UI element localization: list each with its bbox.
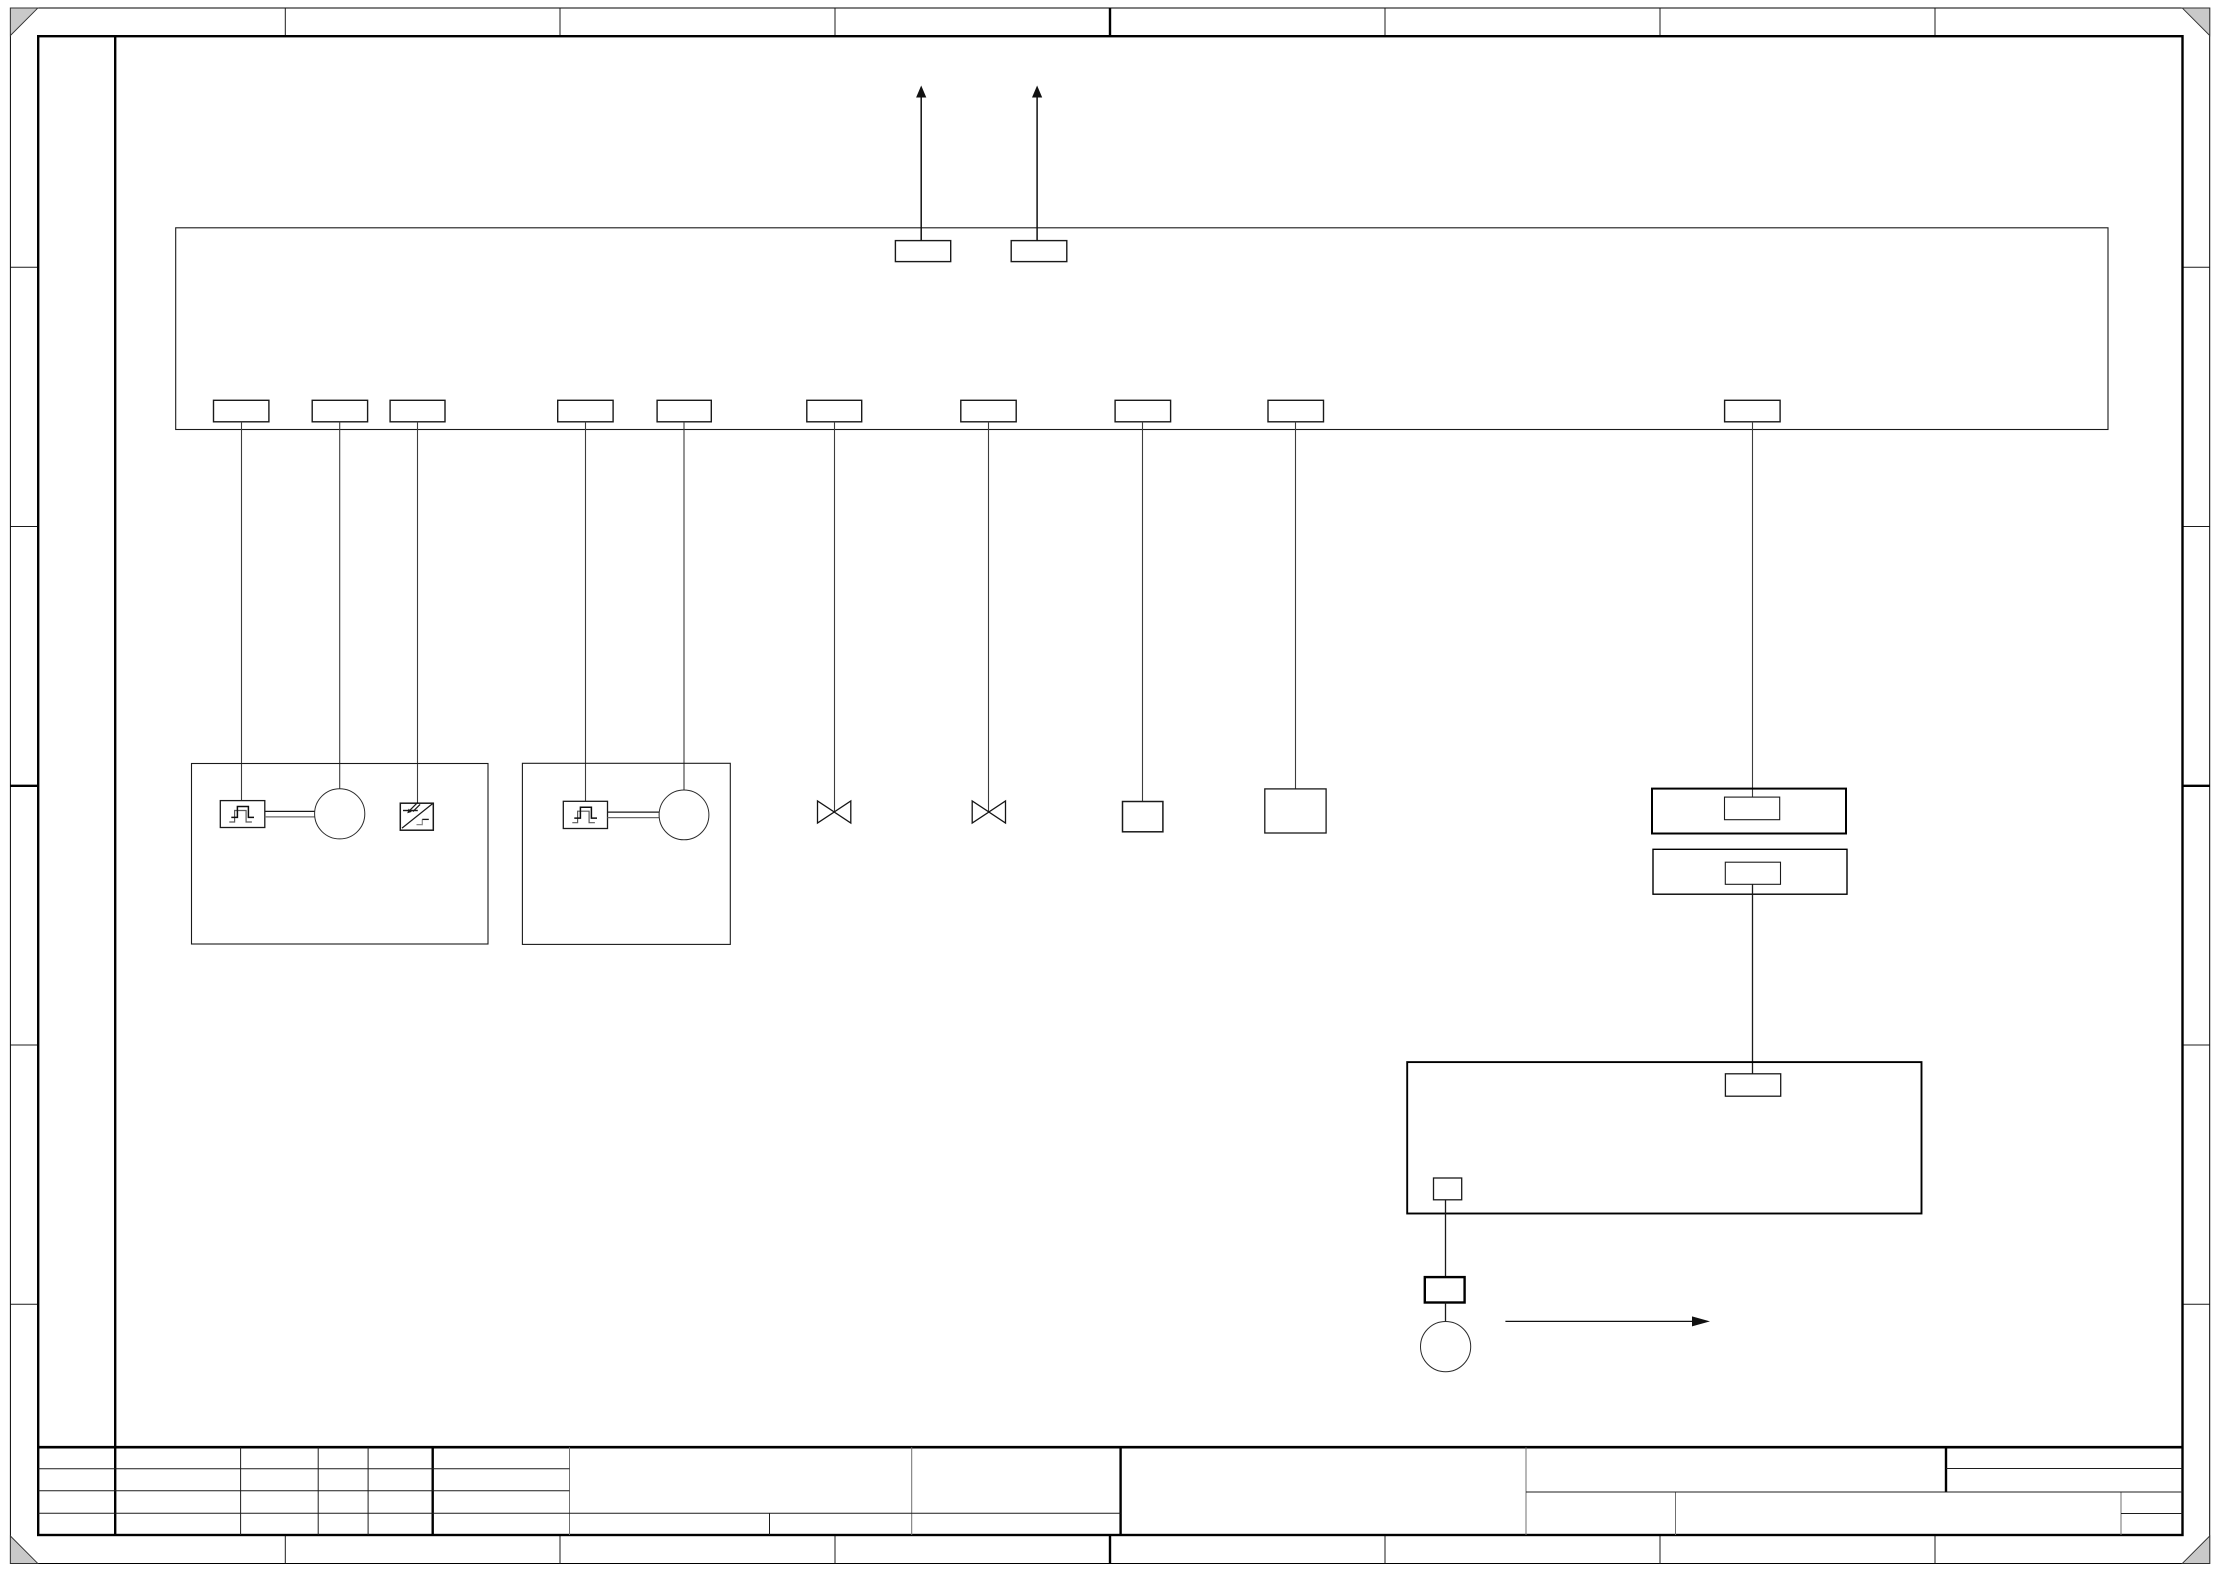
controller box — [1407, 1062, 1921, 1213]
wire module to controller — [1752, 884, 1754, 1074]
title block thin vertical x368 — [367, 1447, 369, 1535]
wire coupler to device circle — [1445, 1303, 1447, 1323]
actuator box T9 — [1265, 789, 1326, 833]
zone ticks right band — [2183, 267, 2210, 1304]
shaft double line 2 — [608, 812, 660, 818]
drive group box 1 — [192, 764, 489, 945]
bus terminal T5 — [657, 400, 711, 422]
left column divider — [114, 36, 116, 1535]
title block row line y1490 left — [38, 1490, 569, 1492]
title block grey vertical x569 — [569, 1447, 571, 1535]
title block row line y1513 — [38, 1512, 1120, 1514]
title block grey vertical x911 — [911, 1447, 913, 1535]
motor circle 2 — [659, 790, 709, 840]
bus terminal T7 — [961, 400, 1016, 422]
pulse converter 2 — [563, 801, 607, 828]
wire T1 to pulse box 1 — [241, 422, 243, 801]
title block short vertical x769 — [769, 1513, 771, 1535]
zone ticks left band — [10, 267, 38, 1304]
actuator box T8 — [1123, 802, 1163, 832]
wire T2 to motor 1 — [339, 422, 341, 789]
wire T4 to pulse box 2 — [585, 422, 587, 802]
zone ticks top band — [285, 8, 1935, 36]
title block thick vertical x432 — [432, 1447, 434, 1535]
motor circle 1 — [315, 789, 365, 839]
zone center tick top — [1109, 8, 1111, 36]
bus terminal T4 — [558, 400, 613, 422]
zone center tick bottom — [1109, 1535, 1111, 1564]
corner trim triangle bottom-left — [10, 1536, 38, 1564]
flow arrow right — [1505, 1316, 1710, 1326]
title block row line y1513 small right — [2121, 1513, 2183, 1515]
valve 2 — [972, 801, 1005, 823]
wire T9 to box — [1295, 422, 1297, 789]
title block row line y1492 right — [1526, 1491, 2183, 1493]
title block thin vertical x318 — [317, 1447, 319, 1535]
coupler rect — [1425, 1277, 1465, 1302]
encoder converter box — [400, 802, 433, 830]
pulse converter 1 — [220, 801, 264, 828]
bus output terminal A — [895, 241, 950, 262]
title block row line y1468 right — [1946, 1468, 2183, 1470]
bus terminal T2 — [312, 400, 367, 422]
interface module lower — [1653, 849, 1847, 894]
bus terminal T9 — [1268, 400, 1324, 422]
up arrow A — [916, 86, 926, 241]
wire T7 to valve 2 — [988, 422, 990, 812]
wire T8 to box — [1142, 422, 1144, 802]
title block thin vertical x240 — [240, 1447, 242, 1535]
wire T5 to motor 2 — [683, 422, 685, 790]
bus terminal T3 — [390, 400, 445, 422]
title block top line — [38, 1446, 2182, 1449]
interface module upper — [1652, 789, 1846, 834]
PLC bus box — [176, 228, 2108, 430]
bus terminal T10 — [1725, 400, 1781, 422]
title block short grey vertical x2121 — [2120, 1492, 2122, 1535]
corner trim triangle top-right — [2182, 8, 2210, 36]
zone center tick left — [10, 785, 38, 787]
corner trim triangle bottom-right — [2182, 1536, 2210, 1564]
drive group box 2 — [522, 763, 730, 944]
title block grey vertical x1526 — [1525, 1447, 1527, 1535]
bus terminal T1 — [214, 400, 269, 422]
wire T3 to converter — [417, 422, 419, 803]
shaft double line 1 — [265, 811, 315, 817]
corner trim triangle top-left — [10, 8, 38, 36]
zone ticks bottom band — [285, 1535, 1935, 1564]
title block short grey vertical x1675 — [1675, 1492, 1677, 1535]
wire controller to coupler — [1445, 1200, 1447, 1277]
wire T10 to module — [1752, 422, 1754, 797]
valve 1 — [818, 801, 851, 823]
device circle — [1421, 1322, 1471, 1372]
bus terminal T6 — [807, 400, 862, 422]
bus terminal T8 — [1115, 400, 1171, 422]
title block thick vertical x1946 — [1945, 1447, 1947, 1492]
title block row line y1468 left — [38, 1468, 569, 1470]
title block thick vertical x1120 — [1119, 1447, 1121, 1535]
zone center tick right — [2183, 785, 2210, 787]
up arrow B — [1032, 86, 1042, 241]
bus output terminal B — [1011, 241, 1067, 262]
wire T6 to valve 1 — [834, 422, 836, 812]
